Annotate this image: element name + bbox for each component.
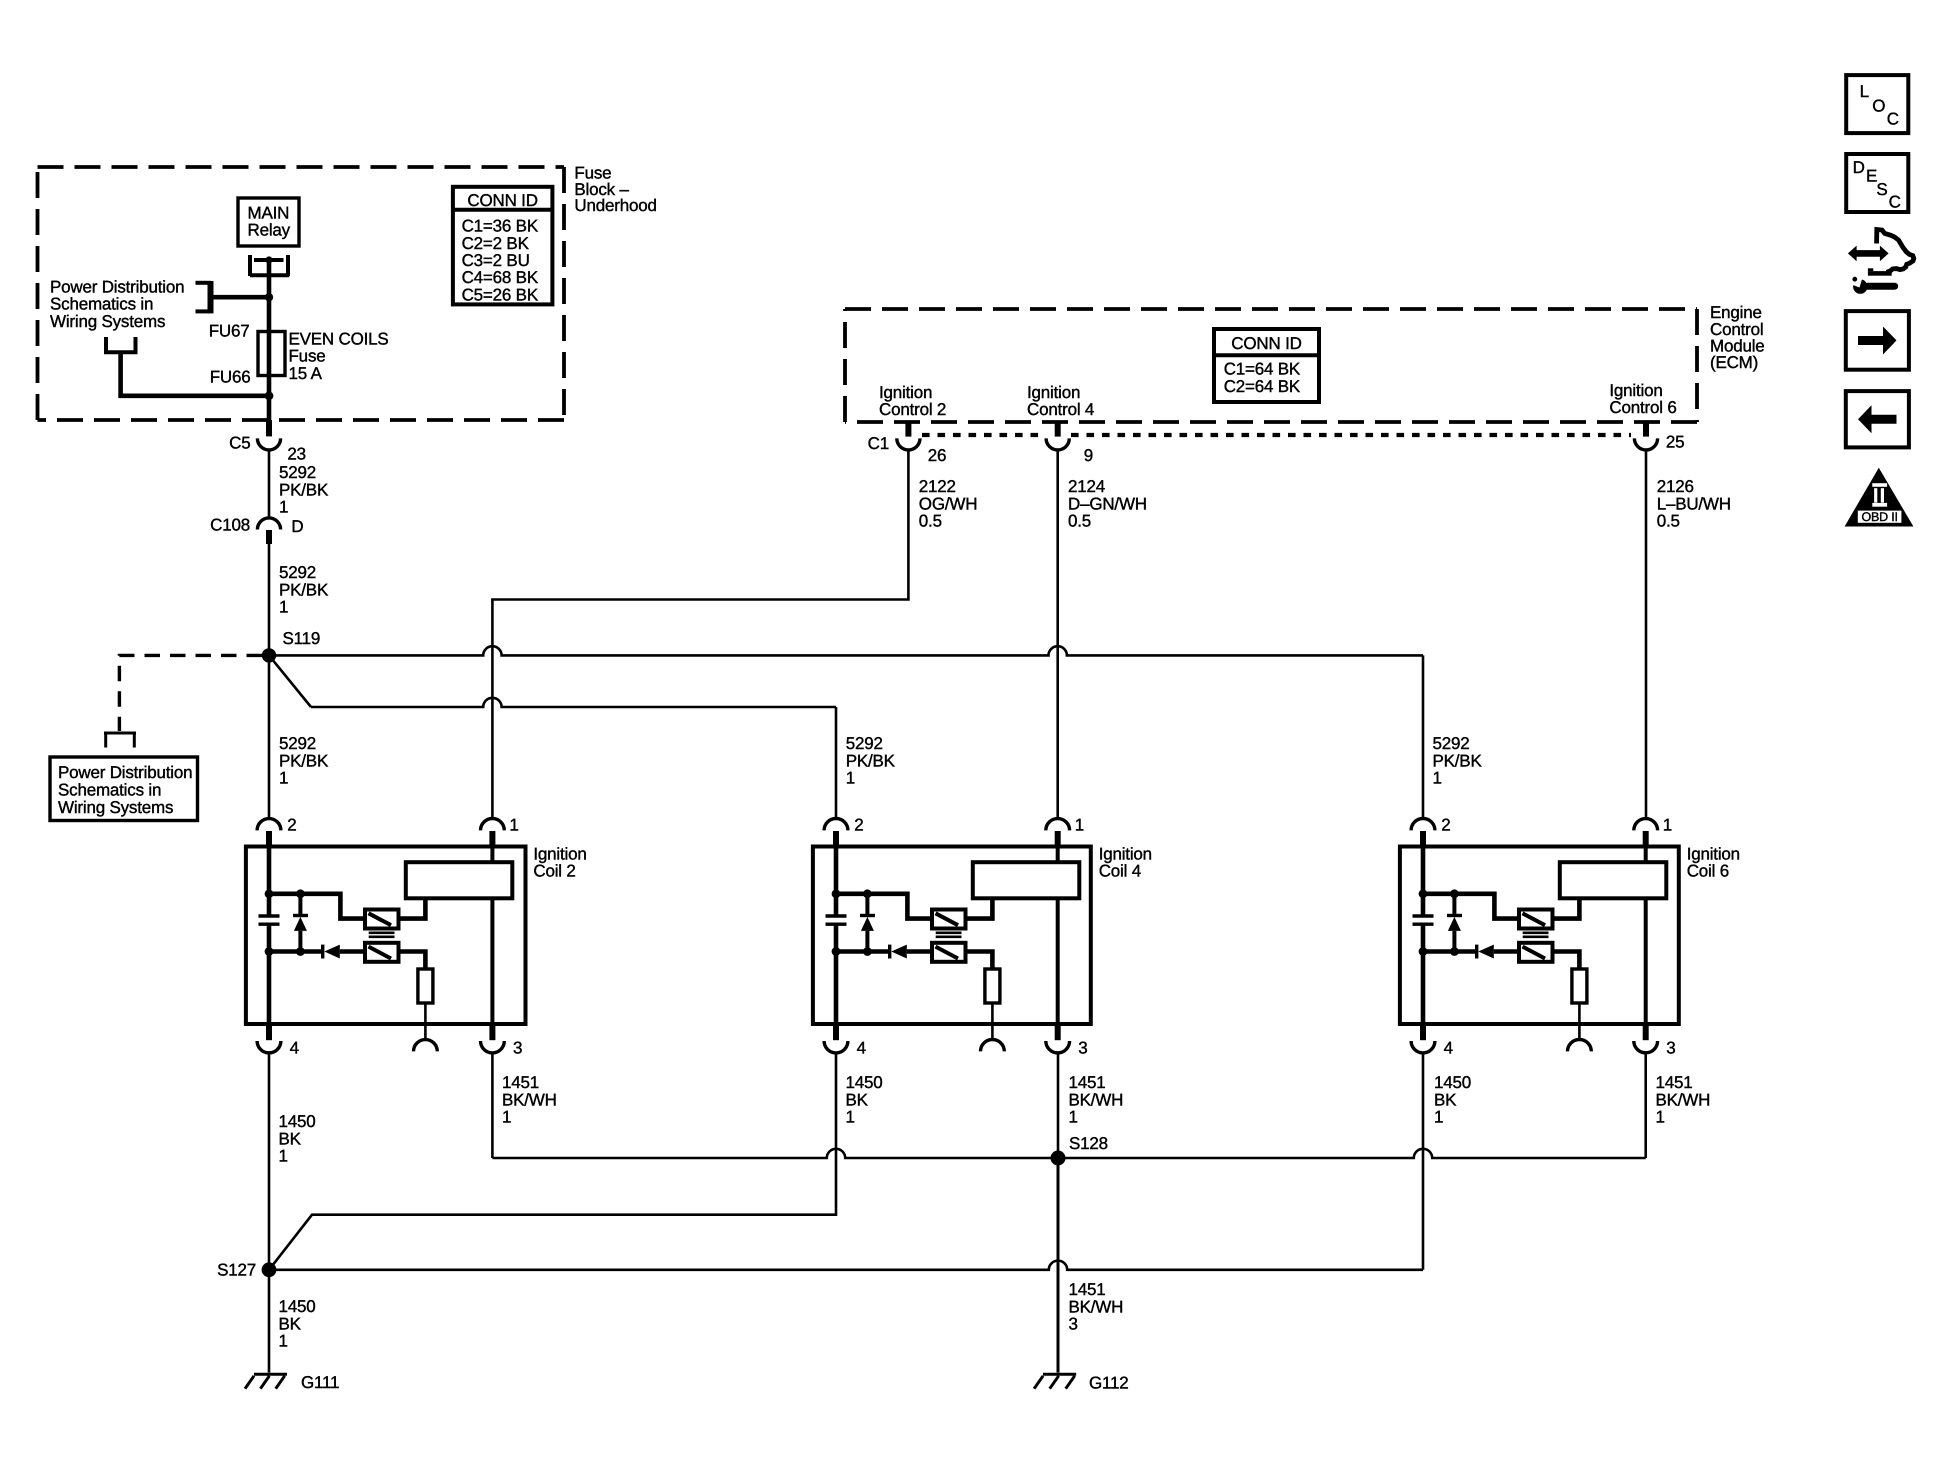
svg-text:1450: 1450 bbox=[279, 1112, 316, 1131]
ECM connector face dotted line bbox=[922, 433, 1631, 437]
connector C108 pin D bbox=[210, 516, 303, 545]
svg-text:C4=68 BK: C4=68 BK bbox=[462, 268, 539, 287]
svg-text:D–GN/WH: D–GN/WH bbox=[1068, 494, 1147, 513]
icon forward arrow box bbox=[1846, 311, 1909, 370]
relay contact terminal symbol bbox=[250, 255, 289, 276]
fuse block underhood dashed box bbox=[38, 167, 565, 420]
svg-text:Power Distribution: Power Distribution bbox=[58, 763, 192, 782]
coil 6 secondary output line (pin1 to pin3) bbox=[1644, 847, 1648, 862]
svg-text:O: O bbox=[1872, 96, 1885, 115]
svg-text:BK: BK bbox=[279, 1129, 302, 1148]
wire 1451 BK/WH S128 to G112 bbox=[1057, 1158, 1060, 1373]
wire 2124 D-GN/WH ECM pin9 to coil4 pin1 bbox=[1056, 450, 1059, 819]
svg-text:PK/BK: PK/BK bbox=[279, 580, 329, 599]
wire label 1450 BK 1 (coil6 pin4) bbox=[1434, 1073, 1471, 1127]
coil 6 capacitor bbox=[1413, 916, 1434, 924]
svg-text:1: 1 bbox=[1069, 1108, 1078, 1127]
svg-text:5292: 5292 bbox=[1433, 734, 1470, 753]
svg-text:4: 4 bbox=[857, 1039, 866, 1058]
svg-text:1: 1 bbox=[1656, 1108, 1665, 1127]
ignition coil 4 pin 4 connector bbox=[824, 1024, 848, 1053]
ignition coil 4 pin 2 connector bbox=[824, 818, 848, 847]
coil 4 internal lower wire bbox=[836, 949, 890, 954]
svg-text:2: 2 bbox=[854, 816, 863, 835]
wire label 1451 BK/WH 1 (coil6 pin3) bbox=[1656, 1073, 1711, 1127]
svg-text:C: C bbox=[1889, 192, 1901, 211]
svg-text:1451: 1451 bbox=[1069, 1073, 1106, 1092]
coil 2 case connector (unnumbered) bbox=[414, 1040, 438, 1052]
svg-text:1: 1 bbox=[846, 769, 855, 788]
coil 4 resistor to case connector wire bbox=[991, 1003, 994, 1040]
svg-text:D: D bbox=[291, 517, 303, 536]
wire label 1450 BK 1 (coil2 pin4) bbox=[279, 1112, 316, 1166]
ignition coil 2 label bbox=[533, 845, 586, 881]
svg-text:Coil 4: Coil 4 bbox=[1099, 861, 1141, 880]
wire 1451 BK/WH coil4 pin3 to S128 bbox=[1057, 1053, 1060, 1158]
svg-text:(ECM): (ECM) bbox=[1710, 353, 1758, 372]
icon LOC box bbox=[1846, 75, 1908, 133]
splice S119 bbox=[262, 629, 320, 663]
svg-text:FU67: FU67 bbox=[209, 321, 250, 340]
svg-text:3: 3 bbox=[1666, 1039, 1675, 1058]
coil 6 resistor to case connector wire bbox=[1578, 1003, 1581, 1040]
svg-text:PK/BK: PK/BK bbox=[846, 751, 896, 770]
coil 2 secondary output line (pin1 to pin3) bbox=[490, 847, 494, 862]
coil 6 diode bbox=[1477, 945, 1494, 959]
svg-text:2124: 2124 bbox=[1068, 477, 1105, 496]
coil 6 upper winding to secondary link bbox=[1553, 898, 1580, 918]
svg-text:1: 1 bbox=[279, 498, 288, 517]
svg-text:BK: BK bbox=[1434, 1090, 1457, 1109]
svg-text:3: 3 bbox=[1078, 1039, 1087, 1058]
junction dot coil 2 lower left bbox=[265, 947, 274, 956]
svg-text:1450: 1450 bbox=[846, 1073, 883, 1092]
svg-text:BK: BK bbox=[846, 1090, 869, 1109]
junction dot coil 4 lower left bbox=[832, 947, 841, 956]
svg-text:BK/WH: BK/WH bbox=[1069, 1297, 1124, 1316]
wire 5292 S119 to coil4 pin2 (with hop) bbox=[269, 655, 311, 707]
coil 6 transformer core bbox=[1523, 933, 1549, 937]
junction dot coil 6 lower left bbox=[1419, 947, 1428, 956]
ignition coil 6 box bbox=[1400, 847, 1679, 1025]
svg-text:Control 4: Control 4 bbox=[1027, 400, 1094, 419]
svg-text:Relay: Relay bbox=[248, 221, 291, 240]
wire label 5292 PK/BK 1 (coil4 pin2) bbox=[846, 734, 896, 788]
junction dot coil 2 top zener bbox=[296, 889, 305, 898]
svg-text:1451: 1451 bbox=[502, 1073, 539, 1092]
svg-text:Coil 6: Coil 6 bbox=[1687, 861, 1729, 880]
coil 6 zener diode bbox=[1447, 894, 1462, 952]
junction dot coil 2 top left bbox=[265, 889, 274, 898]
coil 2 resistor to case connector wire bbox=[424, 1003, 427, 1040]
wire relay to fuse (bold vertical) bbox=[267, 260, 272, 420]
wire label 5292 PK/BK 1 (coil6 pin2) bbox=[1433, 734, 1483, 788]
svg-text:S127: S127 bbox=[217, 1261, 256, 1280]
svg-text:Underhood: Underhood bbox=[574, 196, 656, 215]
svg-text:1: 1 bbox=[279, 769, 288, 788]
junction dot coil 6 lower zener bbox=[1450, 947, 1459, 956]
svg-text:BK/WH: BK/WH bbox=[1656, 1090, 1711, 1109]
splice S128 bbox=[1051, 1134, 1108, 1166]
svg-text:C: C bbox=[1887, 109, 1899, 128]
ignition coil 6 pin 3 connector bbox=[1634, 1024, 1658, 1053]
svg-text:1450: 1450 bbox=[1434, 1073, 1471, 1092]
wire 1450 BK S127 to G111 bbox=[268, 1270, 271, 1373]
wire relay feed jumper bbox=[213, 295, 269, 300]
coil 2 capacitor bbox=[259, 916, 280, 924]
wire 2126 L-BU/WH ECM pin25 to coil6 pin1 bbox=[1645, 450, 1648, 819]
svg-text:1: 1 bbox=[1663, 816, 1672, 835]
svg-text:CONN ID: CONN ID bbox=[467, 191, 537, 210]
svg-text:3: 3 bbox=[513, 1039, 522, 1058]
svg-text:Control 2: Control 2 bbox=[879, 400, 946, 419]
svg-text:0.5: 0.5 bbox=[1068, 512, 1091, 531]
svg-text:26: 26 bbox=[928, 446, 947, 465]
svg-text:1: 1 bbox=[846, 1108, 855, 1127]
ignition coil 2 pin 1 connector bbox=[481, 819, 505, 848]
svg-text:Wiring Systems: Wiring Systems bbox=[58, 798, 173, 817]
ground G111 bbox=[245, 1373, 339, 1392]
svg-text:C5=26 BK: C5=26 BK bbox=[462, 285, 539, 304]
svg-text:9: 9 bbox=[1084, 446, 1093, 465]
splice S127 bbox=[217, 1261, 276, 1280]
coil 6 primary feed line (pin2 to pin4) bbox=[1421, 847, 1426, 916]
ignition coil 6 pin 2 connector bbox=[1411, 818, 1435, 847]
coil 2 driver winding lower bbox=[365, 943, 399, 962]
svg-text:1: 1 bbox=[279, 598, 288, 617]
wire 1450 BK coil6 pin4 to S127 (with hop) bbox=[1422, 1053, 1425, 1270]
coil 4 primary feed line (pin2 to pin4) bbox=[834, 847, 839, 916]
coil 6 internal top wire bbox=[1423, 894, 1519, 919]
fuse value label EVEN COILS Fuse 15 A bbox=[289, 329, 389, 383]
coil 2 internal lower wire bbox=[269, 949, 323, 954]
ignition coil 6 pin 4 connector bbox=[1411, 1024, 1435, 1053]
svg-text:2126: 2126 bbox=[1657, 477, 1694, 496]
power distribution schematics note box bbox=[50, 757, 198, 821]
svg-text:Control 6: Control 6 bbox=[1609, 398, 1676, 417]
svg-text:1451: 1451 bbox=[1069, 1280, 1106, 1299]
wire label 2126 L-BU/WH 0.5 bbox=[1657, 477, 1731, 531]
wire label 1451 BK/WH 1 (coil2 pin3) bbox=[502, 1073, 557, 1127]
svg-text:C2=64 BK: C2=64 BK bbox=[1224, 377, 1301, 396]
off-page bracket 1 bbox=[196, 281, 211, 313]
wire S127 run (with hop over S128 ground wire) bbox=[269, 1261, 1423, 1270]
svg-text:C1=36 BK: C1=36 BK bbox=[462, 217, 539, 236]
svg-text:C5: C5 bbox=[229, 434, 250, 453]
svg-text:1: 1 bbox=[509, 816, 518, 835]
wire label 1450 BK 1 (coil4 pin4) bbox=[846, 1073, 883, 1127]
svg-text:CONN ID: CONN ID bbox=[1231, 334, 1301, 353]
svg-text:OBD II: OBD II bbox=[1861, 510, 1897, 524]
svg-text:5292: 5292 bbox=[279, 734, 316, 753]
junction dot coil 4 lower zener bbox=[863, 947, 872, 956]
wire 2122 OG/WH ECM pin26 to coil2 pin1 bbox=[492, 450, 908, 819]
junction dot relay feed bbox=[265, 293, 273, 301]
icon vehicle with arrow and wrench bbox=[1848, 230, 1914, 294]
svg-text:15 A: 15 A bbox=[289, 364, 323, 383]
svg-text:5292: 5292 bbox=[846, 734, 883, 753]
svg-text:1451: 1451 bbox=[1656, 1073, 1693, 1092]
icon DESC box bbox=[1846, 154, 1908, 212]
wire 1450 BK coil4 pin4 to S127 bbox=[269, 1053, 836, 1270]
coil 4 secondary output line (pin1 to pin3) bbox=[1056, 847, 1060, 862]
coil 4 driver winding upper bbox=[932, 910, 966, 929]
coil 2 driver winding upper bbox=[365, 910, 399, 929]
ignition coil 2 pin 2 connector bbox=[257, 819, 281, 847]
svg-text:2: 2 bbox=[287, 816, 296, 835]
svg-text:25: 25 bbox=[1666, 433, 1685, 452]
wire 5292 PK/BK C5 to C108 bbox=[268, 450, 271, 518]
wire label 1451 BK/WH 1 (coil4 pin3) bbox=[1069, 1073, 1124, 1127]
svg-text:S119: S119 bbox=[283, 629, 321, 648]
svg-text:1: 1 bbox=[1434, 1108, 1443, 1127]
coil 6 lower winding to resistor link bbox=[1553, 952, 1580, 970]
power distribution schematics note (fuse block) bbox=[50, 277, 184, 331]
svg-text:G112: G112 bbox=[1089, 1373, 1129, 1392]
svg-text:C2=2 BK: C2=2 BK bbox=[462, 234, 530, 253]
svg-text:L: L bbox=[1860, 82, 1869, 101]
wire label 1451 BK/WH 3 (to G112) bbox=[1069, 1280, 1124, 1334]
wire 1451 BK/WH coil2 pin3 to S128 bbox=[491, 1053, 494, 1158]
svg-text:1: 1 bbox=[1433, 769, 1442, 788]
ECM connector C1 pin 9 bbox=[1046, 421, 1093, 465]
conn id table ECM bbox=[1214, 329, 1319, 402]
svg-text:1450: 1450 bbox=[279, 1297, 316, 1316]
connector C5 pin 23 bbox=[229, 420, 306, 464]
svg-text:Coil 2: Coil 2 bbox=[533, 861, 575, 880]
svg-text:PK/BK: PK/BK bbox=[1433, 751, 1483, 770]
coil 6 driver winding upper bbox=[1519, 910, 1553, 929]
ignition coil 2 box bbox=[246, 847, 526, 1025]
coil 2 upper winding to secondary link bbox=[399, 898, 426, 918]
wire 5292 S119 to coil2 pin2 bbox=[268, 655, 271, 818]
svg-text:0.5: 0.5 bbox=[1657, 512, 1680, 531]
svg-text:1: 1 bbox=[279, 1332, 288, 1351]
wire label 5292 PK/BK 1 (C108) bbox=[279, 563, 329, 617]
junction dot fuse output bbox=[265, 391, 274, 400]
svg-text:Fuse: Fuse bbox=[289, 347, 326, 366]
coil 6 resistor bbox=[1572, 969, 1587, 1003]
coil 6 internal lower wire bbox=[1423, 949, 1477, 954]
ignition coil 2 pin 3 connector bbox=[481, 1024, 505, 1053]
ignition coil 4 box bbox=[813, 847, 1091, 1025]
coil 2 zener diode bbox=[293, 894, 308, 952]
svg-text:23: 23 bbox=[287, 445, 306, 464]
wire 5292 S119 to coil6 pin2 (with hops) bbox=[269, 646, 1423, 655]
junction dot coil 6 top left bbox=[1419, 889, 1428, 898]
svg-text:PK/BK: PK/BK bbox=[279, 751, 329, 770]
svg-text:1: 1 bbox=[1075, 816, 1084, 835]
wire label 5292 PK/BK 1 (coil2 pin2) bbox=[279, 734, 329, 788]
icon OBD II triangle bbox=[1845, 468, 1914, 527]
svg-text:C1: C1 bbox=[868, 434, 889, 453]
svg-text:C1=64 BK: C1=64 BK bbox=[1224, 360, 1301, 379]
junction dot coil 4 top left bbox=[832, 889, 841, 898]
svg-text:S: S bbox=[1876, 180, 1887, 199]
svg-text:0.5: 0.5 bbox=[919, 512, 942, 531]
svg-text:2: 2 bbox=[1441, 816, 1450, 835]
ignition coil 2 pin 4 connector bbox=[257, 1024, 281, 1053]
svg-text:Power Distribution: Power Distribution bbox=[50, 277, 184, 296]
coil 6 secondary winding rectangle bbox=[1560, 862, 1667, 898]
coil 4 resistor bbox=[985, 969, 1000, 1003]
coil 2 primary feed line (pin2 to pin4) bbox=[267, 847, 272, 916]
wire label 2124 D-GN/WH 0.5 bbox=[1068, 477, 1147, 531]
coil 4 upper winding to secondary link bbox=[966, 898, 993, 918]
svg-text:2122: 2122 bbox=[919, 477, 956, 496]
wire label 1450 BK 1 (to G111) bbox=[279, 1297, 316, 1351]
svg-text:D: D bbox=[1853, 158, 1865, 177]
svg-text:4: 4 bbox=[290, 1039, 299, 1058]
svg-text:EVEN COILS: EVEN COILS bbox=[289, 329, 389, 348]
svg-text:OG/WH: OG/WH bbox=[919, 494, 978, 513]
ECM connector C1 pin 26 bbox=[868, 421, 947, 465]
svg-text:PK/BK: PK/BK bbox=[279, 480, 329, 499]
coil 2 transformer core bbox=[369, 933, 395, 937]
wire label 2122 OG/WH 0.5 bbox=[919, 477, 978, 531]
wire 1450 BK coil2 pin4 to S127 bbox=[268, 1053, 271, 1270]
relay K MAIN Relay box bbox=[238, 198, 299, 246]
ECM output label Ignition Control 4 bbox=[1027, 383, 1094, 419]
svg-text:Wiring Systems: Wiring Systems bbox=[50, 312, 165, 331]
ignition coil 6 label bbox=[1687, 845, 1740, 881]
off-page bracket 3 bbox=[104, 733, 136, 748]
icon back arrow box bbox=[1846, 391, 1909, 447]
wire bracket2 to fuse output bbox=[121, 354, 269, 396]
svg-text:C3=2 BU: C3=2 BU bbox=[462, 251, 530, 270]
svg-text:L–BU/WH: L–BU/WH bbox=[1657, 494, 1731, 513]
coil 4 case connector (unnumbered) bbox=[981, 1040, 1005, 1052]
svg-text:Schematics in: Schematics in bbox=[58, 781, 161, 800]
svg-text:BK/WH: BK/WH bbox=[1069, 1090, 1124, 1109]
coil 6 driver winding lower bbox=[1519, 943, 1553, 962]
ECM output label Ignition Control 2 bbox=[879, 383, 946, 419]
svg-text:C108: C108 bbox=[210, 516, 250, 535]
svg-text:4: 4 bbox=[1444, 1039, 1453, 1058]
svg-text:FU66: FU66 bbox=[210, 368, 251, 387]
ignition coil 4 label bbox=[1099, 845, 1152, 881]
coil 4 capacitor bbox=[826, 916, 847, 924]
ECM label bbox=[1710, 303, 1765, 372]
svg-text:5292: 5292 bbox=[279, 563, 316, 582]
svg-text:1: 1 bbox=[502, 1108, 511, 1127]
fuse FU67/FU66 EVEN COILS 15 A bbox=[258, 332, 285, 376]
svg-text:3: 3 bbox=[1069, 1315, 1078, 1334]
coil 4 lower winding to resistor link bbox=[966, 952, 993, 970]
ignition coil 4 pin 3 connector bbox=[1046, 1024, 1070, 1053]
coil 2 secondary winding rectangle bbox=[406, 862, 513, 898]
svg-text:G111: G111 bbox=[301, 1373, 339, 1392]
coil 2 internal top wire bbox=[269, 894, 365, 919]
junction dot coil 4 top zener bbox=[863, 889, 872, 898]
ignition coil 4 pin 1 connector bbox=[1046, 819, 1070, 847]
wire label 5292 PK/BK 1 (C5) bbox=[279, 463, 329, 517]
svg-text:1: 1 bbox=[279, 1147, 288, 1166]
coil 4 transformer core bbox=[936, 933, 962, 937]
coil 2 resistor bbox=[418, 969, 433, 1003]
ignition coil 6 pin 1 connector bbox=[1634, 819, 1658, 847]
ground G112 bbox=[1034, 1373, 1128, 1392]
coil 4 zener diode bbox=[860, 894, 875, 952]
coil 4 diode bbox=[890, 945, 907, 959]
svg-text:BK/WH: BK/WH bbox=[502, 1090, 557, 1109]
ECM output label Ignition Control 6 bbox=[1609, 381, 1676, 417]
coil 2 diode bbox=[323, 945, 340, 959]
fuse block label bbox=[574, 164, 656, 216]
junction dot coil 2 lower zener bbox=[296, 947, 305, 956]
conn id table fuse block bbox=[453, 187, 553, 305]
junction dot coil 6 top zener bbox=[1450, 889, 1459, 898]
wire 1451 BK/WH S128 to coil6 pin3 (with hop) bbox=[1058, 1149, 1646, 1158]
coil 4 internal top wire bbox=[836, 894, 932, 919]
svg-text:BK: BK bbox=[279, 1314, 302, 1333]
svg-text:S128: S128 bbox=[1069, 1134, 1108, 1153]
wire 5292 PK/BK C108 to S119 bbox=[268, 544, 271, 655]
svg-text:Schematics in: Schematics in bbox=[50, 295, 153, 314]
svg-text:5292: 5292 bbox=[279, 463, 316, 482]
coil 4 secondary winding rectangle bbox=[973, 862, 1080, 898]
ECM connector C1 pin 25 bbox=[1634, 421, 1684, 452]
off-page bracket 2 bbox=[104, 337, 138, 352]
coil 4 driver winding lower bbox=[932, 943, 966, 962]
engine control module dashed box bbox=[845, 309, 1697, 422]
coil 6 case connector (unnumbered) bbox=[1568, 1040, 1592, 1052]
dashed wire S119 to power distribution bbox=[119, 655, 262, 731]
coil 2 lower winding to resistor link bbox=[399, 952, 426, 970]
